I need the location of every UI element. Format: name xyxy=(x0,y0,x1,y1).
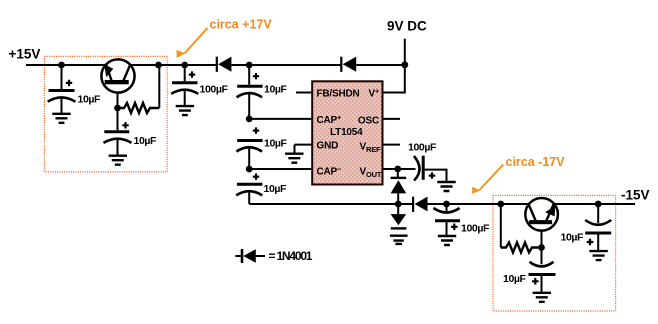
svg-text:9V DC: 9V DC xyxy=(387,19,427,34)
svg-text:10µF: 10µF xyxy=(264,84,288,96)
svg-text:circa -17V: circa -17V xyxy=(506,155,566,169)
svg-text:LT1054: LT1054 xyxy=(330,127,363,138)
svg-text:OSC: OSC xyxy=(358,115,379,126)
svg-text:+15V: +15V xyxy=(9,47,41,62)
svg-text:100µF: 100µF xyxy=(200,84,229,96)
svg-text:10µF: 10µF xyxy=(264,138,288,150)
svg-text:100µF: 100µF xyxy=(408,142,437,154)
svg-text:10µF: 10µF xyxy=(264,183,288,195)
svg-text:10µF: 10µF xyxy=(503,273,527,285)
svg-text:100µF: 100µF xyxy=(461,223,490,235)
svg-text:10µF: 10µF xyxy=(134,135,158,147)
svg-text:GND: GND xyxy=(317,140,339,151)
svg-text:= 1N4001: = 1N4001 xyxy=(269,249,313,263)
svg-text:FB/SHDN: FB/SHDN xyxy=(317,88,360,99)
svg-text:circa +17V: circa +17V xyxy=(210,18,273,32)
svg-text:10µF: 10µF xyxy=(78,94,102,106)
svg-text:10µF: 10µF xyxy=(561,232,585,244)
svg-text:-15V: -15V xyxy=(621,188,650,203)
